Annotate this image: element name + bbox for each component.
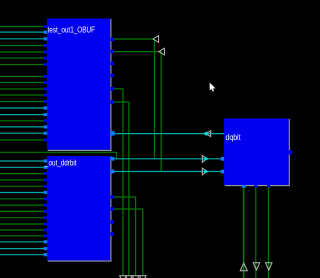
svg-text:test_out1_OBUF: test_out1_OBUF	[48, 25, 96, 34]
svg-text:dqbit: dqbit	[226, 133, 242, 142]
svg-text:_out_ddrbit: _out_ddrbit	[44, 159, 77, 168]
